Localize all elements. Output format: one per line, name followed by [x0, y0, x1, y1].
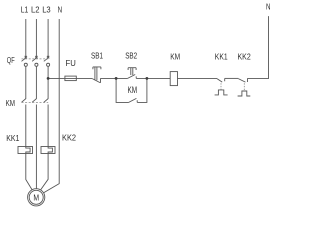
svg-text:KK1: KK1: [215, 53, 228, 62]
svg-text:M: M: [33, 192, 39, 202]
svg-text:KM: KM: [128, 85, 138, 95]
svg-text:L2: L2: [31, 6, 40, 15]
svg-text:N: N: [58, 6, 63, 15]
svg-text:L3: L3: [42, 6, 51, 15]
svg-text:SB2: SB2: [125, 51, 137, 60]
svg-text:FU: FU: [66, 59, 77, 68]
svg-text:N: N: [266, 3, 271, 12]
svg-text:KK1: KK1: [6, 134, 20, 143]
svg-text:KK2: KK2: [62, 133, 77, 142]
svg-text:QF: QF: [7, 56, 15, 65]
svg-text:L1: L1: [21, 6, 29, 15]
svg-text:KM: KM: [6, 99, 16, 108]
svg-text:KM: KM: [170, 53, 180, 62]
svg-text:KK2: KK2: [238, 53, 252, 62]
svg-text:SB1: SB1: [91, 51, 104, 60]
